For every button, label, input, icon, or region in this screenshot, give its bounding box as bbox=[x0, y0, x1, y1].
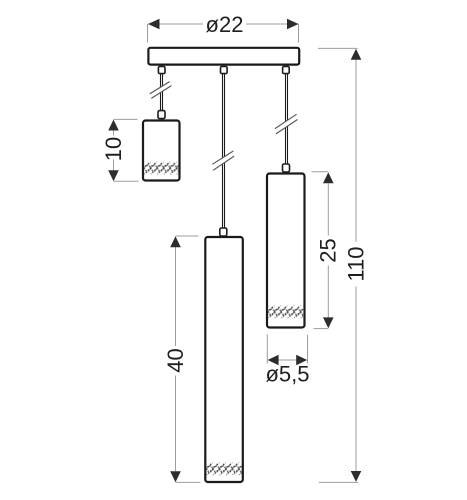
canopy connector middle bbox=[221, 66, 228, 73]
lamp holder middle bbox=[220, 228, 227, 236]
canopy (ceiling plate) bbox=[148, 48, 299, 65]
svg-text:110: 110 bbox=[344, 246, 369, 281]
dimension 25 (right shade height) bbox=[312, 172, 334, 329]
svg-text:40: 40 bbox=[163, 348, 188, 372]
shade cylinder middle bbox=[205, 237, 243, 482]
dimension 110 (overall height) bbox=[318, 48, 361, 482]
break mark on right cord bbox=[275, 114, 298, 134]
knurl band right shade bbox=[268, 306, 303, 319]
cord middle bbox=[223, 74, 225, 228]
svg-text:ø5,5: ø5,5 bbox=[265, 361, 309, 386]
shade cylinder right bbox=[267, 174, 305, 328]
canopy connector right bbox=[283, 66, 290, 73]
svg-text:25: 25 bbox=[316, 238, 341, 262]
dimension line ø22 bbox=[148, 19, 299, 43]
dimension 10 (left shade height) bbox=[108, 119, 138, 181]
svg-text:ø22: ø22 bbox=[206, 12, 244, 37]
break mark on left cord bbox=[150, 82, 172, 99]
canopy connector left bbox=[158, 66, 165, 73]
knurl band left shade bbox=[144, 162, 178, 175]
cord left bbox=[161, 74, 163, 111]
shade cylinder left bbox=[143, 121, 180, 181]
knurl band middle shade bbox=[207, 463, 242, 476]
lamp holder right bbox=[283, 164, 290, 172]
dimension 40 (middle shade height) bbox=[170, 236, 200, 482]
lamp holder left bbox=[158, 111, 165, 119]
cord right bbox=[286, 74, 288, 164]
svg-text:10: 10 bbox=[101, 137, 126, 161]
break mark on middle cord bbox=[212, 151, 234, 170]
dimension ø5,5 (shade diameter) bbox=[267, 334, 307, 365]
